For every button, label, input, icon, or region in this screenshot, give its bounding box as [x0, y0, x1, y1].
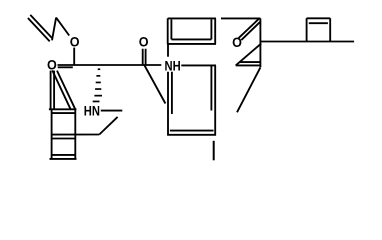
allyl C2-C3 bond — [52, 18, 56, 41]
ring B top horizontal to ketone — [168, 17, 261, 19]
N-methyl bond — [101, 110, 123, 112]
amide C=O double bond — [143, 49, 146, 65]
ring A top horizontals — [49, 109, 77, 113]
square ring left edge — [306, 18, 308, 41]
ring C left edge — [168, 72, 172, 136]
amide C to ring bond — [144, 65, 165, 104]
ring B bottom edge — [167, 39, 216, 44]
vinyl bottom double — [236, 62, 261, 65]
svg-text:O: O — [47, 57, 57, 73]
NH to ring corner bond — [181, 64, 216, 66]
ring A middle short horizontal — [52, 138, 76, 140]
svg-text:HN: HN — [84, 103, 100, 119]
ring A middle long horizontal — [52, 134, 100, 136]
iodine bar — [213, 141, 215, 161]
ring A bottom horizontals — [50, 155, 77, 159]
chain long diagonal — [237, 67, 260, 112]
ring A box left edge — [51, 109, 53, 159]
svg-text:O: O — [232, 34, 242, 50]
ketone C=O double bond — [239, 18, 261, 40]
svg-text:O: O — [70, 34, 80, 50]
ring A box right edge — [74, 109, 76, 159]
svg-text:O: O — [139, 33, 149, 49]
square ring top edge — [307, 18, 331, 23]
ring C right edge — [211, 65, 215, 135]
right long horizontal — [260, 41, 354, 43]
ring B to N bond — [167, 44, 169, 57]
ring B right edge — [211, 18, 215, 44]
allyl C3 to ester O bond — [56, 18, 69, 36]
vinyl hypotenuse — [236, 44, 262, 66]
stereo hash wedge — [93, 68, 102, 102]
ring B left edge — [168, 18, 172, 44]
ring C bottom edge — [167, 131, 216, 135]
ester C=O second line — [58, 66, 73, 68]
ring A left double vertical — [51, 71, 55, 110]
ring A double diagonal — [52, 70, 75, 109]
ester O-C bond — [73, 48, 75, 65]
backbone main horizontal — [58, 64, 162, 66]
ethyl diagonal bond — [99, 117, 117, 135]
ketone vertical bond — [259, 18, 261, 67]
svg-text:NH: NH — [165, 57, 181, 73]
allyl CH2=CH double bond — [28, 15, 52, 42]
square ring right edge — [329, 18, 331, 41]
